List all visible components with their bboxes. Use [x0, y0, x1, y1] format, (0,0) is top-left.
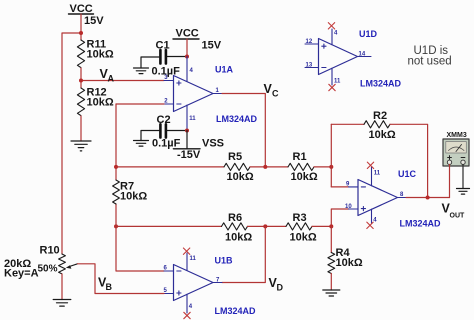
wire node down to R4	[330, 226, 332, 252]
label LM324AD for U1D	[360, 79, 402, 89]
ground below R12	[71, 141, 91, 151]
svg-text:LM324AD: LM324AD	[215, 306, 257, 316]
svg-text:C: C	[272, 89, 279, 99]
junction VD on R6/R3 row	[263, 224, 267, 228]
wire R4 bottom to ground	[330, 274, 332, 291]
wire VCC to R11 top	[80, 14, 82, 40]
wire R7 bottom to U1B - input	[116, 204, 164, 271]
junction C2/VSS/pin11	[185, 129, 189, 133]
svg-text:R1: R1	[293, 151, 307, 163]
svg-text:10kΩ: 10kΩ	[369, 129, 396, 141]
svg-text:C2: C2	[157, 114, 171, 126]
label U1B	[215, 256, 234, 266]
capacitor C2	[152, 114, 181, 150]
wire R1 to junction with R2 branch	[314, 166, 331, 168]
junction R7 bottom	[114, 224, 118, 228]
wire R5 row from R7 top junction	[116, 166, 224, 168]
op-amp U1B pin 4 stub with X	[184, 294, 193, 318]
svg-text:Key=A: Key=A	[4, 268, 39, 280]
wire U1A output to node VC and down	[222, 94, 265, 167]
wire R6 to R3	[248, 225, 287, 227]
svg-text:D: D	[277, 283, 284, 293]
op-amp U1C pin 4 stub with X	[367, 209, 378, 228]
svg-text:OUT: OUT	[450, 213, 466, 220]
resistor R3	[286, 212, 317, 244]
resistor R6	[222, 212, 253, 244]
power VCC supply symbol (top left)	[69, 3, 105, 27]
op-amp U1D pin 4 stub with X	[328, 23, 338, 45]
wire R10 wiper to U1B + input (node VB)	[78, 264, 165, 294]
svg-text:U1D: U1D	[359, 29, 378, 39]
svg-text:LM324AD: LM324AD	[400, 219, 442, 229]
wire R6/R3 row from R7 bottom	[116, 225, 222, 227]
op-amp U1A	[164, 75, 222, 112]
node label VA	[100, 67, 115, 84]
ground below R10	[53, 300, 71, 307]
op-amp U1D	[305, 39, 371, 75]
wire C1 right plate to VCC rail junction	[167, 56, 187, 58]
resistor R7	[113, 180, 148, 204]
svg-text:10: 10	[345, 204, 352, 210]
svg-text:10kΩ: 10kΩ	[120, 191, 147, 203]
svg-text:50%: 50%	[38, 264, 58, 275]
wire VD junction down to U1B output	[222, 226, 265, 282]
svg-text:VCC: VCC	[176, 28, 199, 40]
svg-text:U1A: U1A	[215, 65, 234, 75]
svg-text:U1C: U1C	[398, 169, 417, 179]
resistor R11	[77, 39, 113, 68]
wire R12 bottom to ground	[80, 116, 82, 141]
wire VCC rail down to U1A pin4	[186, 39, 188, 57]
op-amp U1B pin 11 stub with X	[183, 248, 196, 271]
node label VC	[264, 82, 280, 99]
svg-text:R3: R3	[293, 212, 307, 224]
svg-text:LM324AD: LM324AD	[360, 79, 402, 89]
label LM324AD for U1A	[216, 114, 258, 124]
ground below XMM3	[457, 189, 470, 195]
svg-text:R5: R5	[228, 151, 242, 163]
svg-text:0.1µF: 0.1µF	[152, 138, 181, 150]
wire C2 left plate to ground	[141, 131, 159, 141]
wire vertical U1A(-) down to R7	[115, 104, 117, 180]
wire left branch from VCC junction down to R10	[62, 33, 81, 254]
svg-text:10kΩ: 10kΩ	[227, 171, 254, 183]
svg-text:VSS: VSS	[202, 138, 224, 150]
wire U1C positive input and down to R3/R4 node	[331, 209, 348, 226]
junction R1/R2/U1C-	[329, 165, 333, 169]
wire C2 right plate to VSS junction	[167, 130, 187, 132]
svg-text:VCC: VCC	[70, 3, 93, 15]
svg-text:14: 14	[359, 52, 366, 58]
svg-text:15V: 15V	[202, 40, 222, 52]
node label VOUT	[442, 202, 466, 220]
junction R7 top	[114, 165, 118, 169]
svg-text:A: A	[108, 74, 115, 84]
power VSS supply symbol	[173, 131, 224, 162]
resistor R5	[224, 151, 254, 183]
op-amp U1A pin 11 lead	[187, 105, 196, 131]
svg-text:10kΩ: 10kΩ	[87, 97, 114, 109]
resistor R12	[77, 87, 113, 116]
label LM324AD for U1B	[215, 306, 257, 316]
label U1C	[398, 169, 417, 179]
resistor R4	[328, 247, 363, 274]
resistor R2	[364, 110, 396, 141]
label U1A	[215, 65, 234, 75]
wire R2 right lead down to output row	[390, 124, 428, 197]
svg-text:B: B	[106, 282, 113, 292]
svg-text:11: 11	[190, 256, 197, 262]
op-amp U1B	[164, 265, 223, 301]
ground below C2	[134, 141, 149, 147]
wire R10 bottom to ground	[61, 274, 63, 300]
label LM324AD for U1C	[400, 219, 442, 229]
svg-text:R2: R2	[373, 110, 387, 122]
junction at VCC branch	[79, 31, 83, 35]
wire XMM3 plus terminal to output row	[449, 165, 451, 198]
op-amp U1C pin 11 stub with X	[367, 162, 381, 186]
svg-text:10kΩ: 10kΩ	[290, 232, 317, 244]
resistor R1	[288, 151, 318, 183]
wire node VA to U1A + input	[81, 80, 164, 82]
wire XMM3 minus terminal to ground	[462, 165, 464, 189]
svg-text:11: 11	[189, 116, 196, 122]
junction R3/R4/U1C+	[329, 224, 333, 228]
svg-text:11: 11	[374, 171, 381, 177]
wire R2 left lead	[331, 123, 364, 125]
svg-text:R10: R10	[40, 245, 60, 257]
op-amp U1D pin 11 stub with X	[329, 68, 341, 91]
junction VC on R5/R1 row	[263, 165, 267, 169]
svg-text:11: 11	[334, 79, 341, 85]
svg-text:10kΩ: 10kΩ	[291, 171, 318, 183]
svg-text:10kΩ: 10kΩ	[336, 257, 363, 269]
junction node VA	[79, 79, 83, 83]
svg-text:C1: C1	[156, 40, 170, 52]
node label VB	[98, 276, 113, 293]
label U1D	[359, 29, 378, 39]
svg-text:R6: R6	[228, 212, 242, 224]
op-amp U1C	[345, 180, 406, 216]
wire R5 to R1	[250, 166, 288, 168]
multimeter XMM3	[443, 132, 469, 166]
junction C1/VCC/pin4	[185, 55, 189, 59]
svg-text:LM324AD: LM324AD	[216, 114, 258, 124]
op-amp U1A pin 4 lead	[187, 57, 194, 82]
wire vertical junction up to R2 row and down to U1C - input	[330, 124, 332, 187]
svg-text:not used: not used	[408, 56, 452, 68]
power VCC supply symbol (above U1A)	[173, 28, 222, 52]
wire R3 to R4 node	[312, 225, 331, 227]
svg-text:15V: 15V	[84, 15, 104, 27]
svg-text:10kΩ: 10kΩ	[225, 232, 252, 244]
wire U1C output row to XMM3	[406, 197, 450, 199]
wire U1C negative input	[331, 186, 348, 188]
svg-text:12: 12	[306, 39, 313, 45]
ground below R4	[323, 290, 340, 296]
svg-text:13: 13	[306, 63, 313, 69]
potentiometer R10	[4, 245, 78, 280]
svg-text:-15V: -15V	[177, 149, 201, 161]
note U1D is not used	[408, 45, 452, 68]
wire R11 bottom to R12 top	[80, 68, 82, 88]
svg-text:XMM3: XMM3	[447, 132, 467, 139]
svg-text:U1B: U1B	[215, 256, 234, 266]
node label VD	[269, 276, 284, 293]
capacitor C1	[152, 40, 181, 78]
wire U1A negative input row	[116, 103, 164, 105]
svg-text:10kΩ: 10kΩ	[87, 49, 114, 61]
ground below C1	[134, 68, 149, 74]
wire C1 left plate to ground	[141, 57, 159, 68]
junction R2 feedback on output row	[426, 196, 430, 200]
